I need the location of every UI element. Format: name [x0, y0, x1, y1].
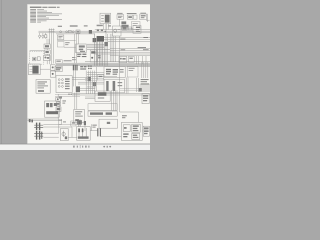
pump terminal dashes	[123, 133, 128, 137]
splice dot pair	[68, 94, 72, 95]
switch SW3	[44, 55, 51, 60]
sensor SN3	[56, 107, 61, 111]
battery relay BR dark block	[89, 30, 92, 34]
label specks	[72, 57, 76, 60]
relay R3 block	[104, 42, 108, 46]
lamp L1	[33, 57, 36, 61]
wire to pump box	[100, 136, 121, 138]
labeled frame box	[99, 119, 117, 128]
relay R4 box	[90, 50, 97, 62]
heater unit box	[95, 91, 110, 101]
toolbar separator	[0, 143, 150, 146]
small relay box above band	[55, 60, 62, 63]
connector CN1 dark rows	[55, 66, 62, 71]
wire second bus	[104, 38, 150, 42]
label specks mid-left	[65, 42, 69, 45]
wire flasher drop	[78, 123, 80, 127]
label battery	[140, 13, 146, 14]
wire washer out	[68, 136, 77, 138]
relay box K1 with hatched body	[100, 13, 111, 23]
connector pair CP-B	[34, 131, 43, 140]
junction dot	[105, 31, 106, 32]
label specks near sensors	[62, 100, 66, 103]
washer motor box	[60, 129, 68, 141]
fusible link FL1	[68, 30, 71, 32]
fuse panel FP1	[104, 67, 125, 78]
glow plug GP2	[50, 71, 55, 77]
solenoid box right	[143, 126, 149, 136]
connector pair CP-A	[34, 123, 43, 131]
wire lower-left rails	[27, 119, 58, 121]
wire drops below heater	[112, 90, 117, 111]
wire combo switch out	[72, 78, 87, 80]
toolbar page controls	[73, 145, 89, 148]
wire left feed to heater	[85, 97, 95, 98]
terminal strip with legend	[88, 111, 117, 116]
fusible link FL2	[76, 30, 80, 33]
legend list of component names	[30, 9, 62, 22]
lamp box LL1	[71, 121, 76, 126]
fuse taps	[97, 29, 103, 31]
fuse F1 box	[117, 15, 124, 20]
wire panel feed	[30, 50, 44, 52]
wire to pump assembly	[90, 124, 97, 130]
terminal lug marks	[121, 21, 128, 27]
splice dots	[88, 65, 92, 69]
sensor SN2	[56, 102, 60, 106]
wire battery positive	[146, 14, 150, 22]
connector cluster CC pins	[77, 120, 86, 125]
wiper unit box	[104, 79, 124, 93]
splice blob right	[139, 88, 142, 92]
bus3 labels	[121, 47, 149, 50]
wire L-run to pump box	[120, 112, 139, 122]
wire extra mid horizontals	[85, 78, 104, 88]
wire tap labels on second bus	[120, 37, 148, 40]
junction connector box	[77, 127, 91, 141]
wire relay drops	[104, 24, 109, 30]
relay box R7	[98, 75, 104, 80]
wire center band	[56, 62, 150, 67]
ignition switch dark block	[93, 38, 97, 42]
wire cluster drops	[79, 120, 85, 131]
wire mid-right horizontals	[120, 89, 140, 91]
wire right corner verticals	[126, 77, 138, 93]
label fusible link	[127, 13, 137, 14]
connector ring terminals on bus	[60, 31, 74, 33]
glow plug GP1	[50, 65, 55, 70]
title: ELECTRICAL WIRING DIAGRAM	[30, 7, 60, 8]
wire bottom band	[72, 94, 150, 95]
label speck	[64, 60, 72, 61]
wire down pair	[75, 93, 77, 110]
splice blob SB1	[88, 77, 91, 81]
wire right drops	[142, 62, 148, 78]
wire starter to switch	[40, 68, 50, 70]
connector pins below frame	[97, 128, 101, 136]
pump relay sub-box	[132, 124, 140, 132]
breaker pair boxes	[127, 15, 137, 19]
splice blob SB2	[93, 82, 96, 86]
wire connector outputs	[43, 119, 72, 137]
wire left riser bundle	[49, 28, 55, 63]
relay R6 box	[128, 56, 134, 62]
wire top bus lines	[39, 30, 151, 34]
starter terminals row	[39, 33, 47, 39]
diode box D1	[57, 42, 64, 47]
connector CN3 marks	[80, 66, 86, 70]
wire mid-left links	[57, 41, 76, 48]
pump switch sub-box	[132, 133, 140, 139]
wire small rails above sensors	[55, 95, 80, 97]
flasher unit box	[74, 109, 85, 122]
sidebar edge line	[0, 0, 3, 144]
viewer background	[0, 0, 150, 150]
wire harness bundle center	[87, 24, 116, 66]
gauge G1 box	[113, 26, 122, 36]
label specks lower-left	[58, 120, 66, 123]
wire third bus right	[95, 49, 150, 56]
junction box J1	[131, 22, 140, 30]
connector CN2 pin column	[73, 65, 78, 71]
terminal board outline	[88, 104, 117, 111]
dashed panel box	[30, 52, 44, 65]
key switch stack: switch SW1	[44, 44, 50, 49]
relay R5 box	[119, 56, 127, 62]
schematic page sheet	[27, 4, 150, 144]
switch S1 marks	[128, 27, 132, 30]
resistor block box	[57, 35, 63, 40]
pump assembly box	[121, 122, 142, 140]
horn H1 dark box	[122, 27, 127, 31]
monitor panel box	[36, 80, 50, 94]
control unit CU box	[127, 66, 138, 77]
connector CN4 hatch block	[74, 71, 80, 93]
battery B1 box	[140, 14, 147, 20]
wire drop bundle left-center	[75, 34, 79, 64]
wire center verticals lower	[86, 67, 96, 94]
wire lower cross rail	[59, 123, 79, 125]
alternator A1 box	[133, 26, 141, 34]
wire lower band left	[80, 89, 95, 91]
small comp stack left: sensor SN1	[56, 97, 61, 101]
label fuse row	[117, 13, 122, 14]
ground lug marks	[29, 119, 33, 122]
wire switch stack links	[47, 39, 52, 64]
label mark top right of resistor	[59, 96, 62, 98]
fuse label specks	[122, 115, 127, 118]
combination switch box	[56, 76, 72, 93]
wire mid horizontals	[78, 71, 117, 94]
wire drops right	[136, 56, 146, 64]
junction cross marks	[97, 55, 100, 58]
label specks	[92, 125, 96, 128]
bus label specks	[58, 25, 111, 27]
right labels	[141, 79, 150, 84]
fuse box FB main dark block	[97, 36, 104, 42]
fuel unit box right	[142, 94, 149, 104]
starter motor M box	[28, 64, 40, 75]
terminal strip marks	[77, 54, 86, 58]
lamp L2	[37, 57, 40, 61]
relay R2 with contacts	[76, 44, 87, 53]
wire right cluster	[140, 85, 150, 91]
wire main vertical feed	[119, 19, 121, 26]
pump motor sub-box	[123, 125, 130, 132]
wire pump to solenoid	[142, 130, 143, 132]
wire sensor chain	[57, 94, 59, 119]
toolbar zoom controls	[103, 146, 111, 148]
viewer toolbar	[0, 144, 150, 150]
switch SW2	[44, 50, 50, 54]
resistor box RS1	[45, 101, 60, 117]
wire gauge to alternator	[121, 29, 133, 31]
